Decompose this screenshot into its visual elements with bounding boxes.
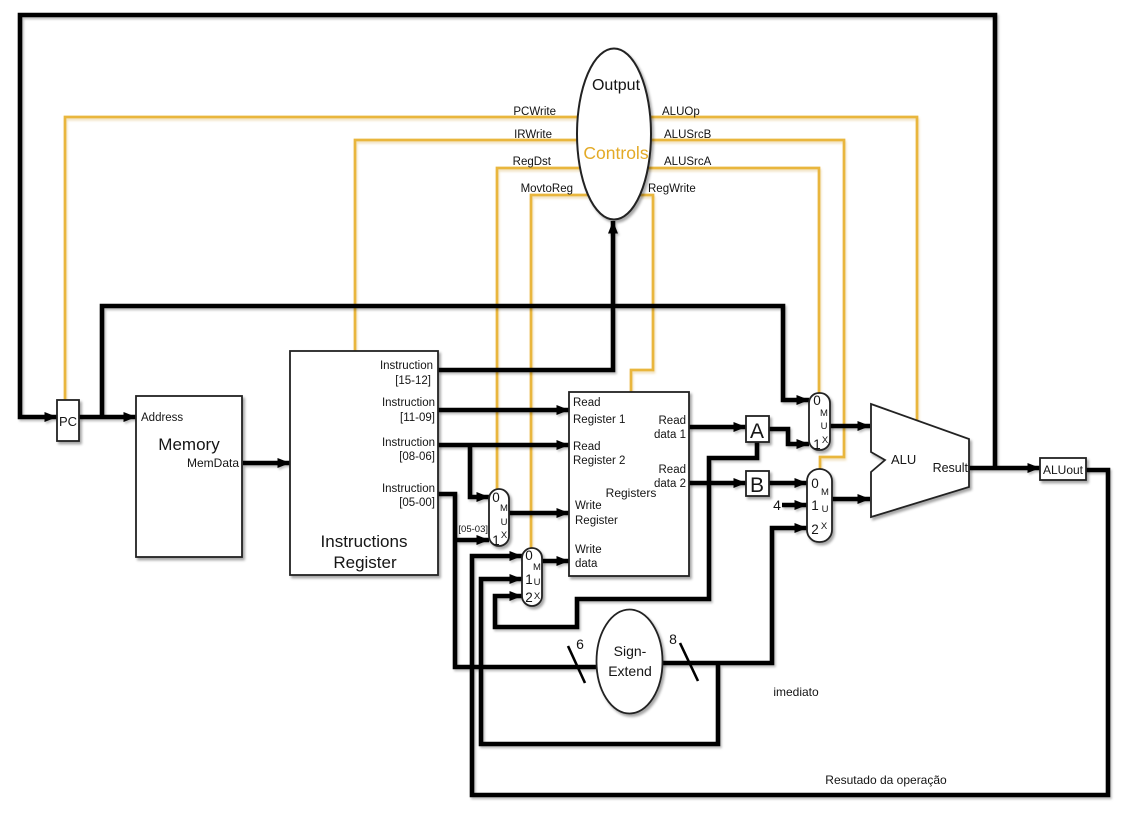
wire A register output to ALU source A mux input 1 (769, 429, 809, 444)
wire Read data 1 to A register (689, 425, 746, 430)
label ALUSrcA (664, 156, 712, 168)
wire PCWrite control (Controls to PC clock) (65, 117, 590, 400)
label PCWrite (513, 106, 556, 118)
svg-text:data: data (575, 558, 598, 570)
svg-text:Instruction: Instruction (382, 397, 435, 409)
svg-text:[05-03]: [05-03] (458, 524, 488, 535)
wire Sign-Extend immediate loop to write-data mux input 1 (481, 579, 718, 744)
svg-text:Instructions: Instructions (321, 532, 408, 551)
register B (746, 471, 769, 497)
svg-text:U: U (821, 421, 828, 432)
svg-text:6: 6 (576, 636, 584, 652)
wire constant 4 to ALU source B mux input 1 (782, 503, 807, 508)
svg-text:ALUout: ALUout (1043, 463, 1084, 477)
label MovtoReg (521, 183, 573, 195)
svg-text:A: A (750, 420, 764, 443)
wire PC feedback loop from ALU Result around border to PC input (20, 15, 995, 468)
svg-text:U: U (822, 504, 829, 515)
wire ALUSrcA control (Controls to ALU source A mux) (640, 168, 819, 393)
svg-text:data 1: data 1 (654, 429, 686, 441)
bus width slash 6 (568, 636, 585, 683)
svg-text:Read: Read (573, 397, 601, 409)
wire Instruction [05-03] branch to write-register mux input 1 (455, 538, 489, 543)
wire Instruction [11-09] to Read Register 1 (438, 408, 569, 413)
svg-text:4: 4 (773, 497, 781, 513)
wire ALU source A mux output to ALU (830, 424, 870, 429)
ALU unit (871, 404, 969, 517)
wire ALU source B mux output to ALU (832, 497, 870, 502)
wire write-data mux output to Write data (542, 559, 569, 564)
svg-text:Write: Write (575, 544, 602, 556)
svg-text:2: 2 (811, 522, 819, 537)
svg-text:M: M (533, 562, 541, 573)
svg-text:Result: Result (933, 461, 969, 475)
svg-text:[11-09]: [11-09] (400, 412, 435, 424)
node constant 4 (773, 497, 781, 513)
wire ALUSrcB control (Controls to ALU source B mux) (640, 140, 844, 469)
svg-text:1: 1 (811, 498, 819, 513)
wire ALU Result to ALUout (969, 466, 1040, 471)
svg-text:Read: Read (573, 441, 601, 453)
svg-text:8: 8 (669, 631, 677, 647)
node [05-03] label (458, 524, 488, 535)
wire IRWrite control (Controls to Instructions Register) (355, 140, 590, 351)
svg-text:Output: Output (592, 77, 641, 94)
net label imediato (773, 685, 819, 699)
svg-text:[15-12]: [15-12] (395, 375, 431, 387)
svg-text:B: B (750, 474, 764, 497)
svg-text:M: M (821, 487, 829, 498)
mux write-register (RegDst mux) (489, 489, 509, 548)
svg-text:Write: Write (575, 500, 602, 512)
wire Sign-Extend output to ALU source B mux input 2 (662, 528, 807, 663)
wire ALUout result loop to write-data mux input 0 (472, 470, 1108, 795)
svg-text:2: 2 (525, 590, 533, 605)
svg-text:RegWrite: RegWrite (648, 183, 696, 195)
svg-text:0: 0 (492, 490, 500, 505)
wire MemData output to Instructions Register (243, 461, 290, 466)
wire write-register mux output to Write Register (509, 511, 569, 516)
net label Resutado da operacao (825, 773, 947, 787)
svg-text:MemData: MemData (187, 456, 239, 470)
svg-text:Register: Register (333, 553, 397, 572)
svg-text:Register 2: Register 2 (573, 455, 625, 467)
instructions register (290, 351, 438, 575)
wire A register loop to write-data mux input 2 (495, 442, 757, 627)
wire Instruction [08-06] branch to write-register mux input 0 (470, 445, 489, 497)
svg-text:ALUOp: ALUOp (662, 106, 700, 118)
svg-text:Register 1: Register 1 (573, 414, 625, 426)
svg-text:M: M (820, 408, 828, 419)
register PC (57, 400, 79, 441)
svg-text:1: 1 (525, 572, 533, 587)
register A (746, 416, 769, 443)
svg-text:X: X (534, 591, 541, 602)
svg-text:Sign-: Sign- (614, 643, 647, 659)
svg-text:Instruction: Instruction (380, 360, 433, 372)
svg-text:X: X (821, 521, 828, 532)
label RegWrite (648, 183, 696, 195)
svg-text:0: 0 (813, 393, 821, 408)
svg-text:Extend: Extend (608, 663, 652, 679)
label ALUOp (662, 106, 700, 118)
svg-text:U: U (501, 517, 508, 528)
svg-text:1: 1 (813, 437, 821, 452)
svg-text:X: X (822, 435, 829, 446)
svg-text:0: 0 (525, 548, 533, 563)
wire B register output to ALU source B mux input 0 (769, 481, 807, 486)
wire PC value to ALU source A mux input 0 (102, 306, 809, 417)
svg-text:Read: Read (659, 464, 687, 476)
svg-text:Register: Register (575, 515, 618, 527)
controls unit oval (577, 49, 651, 220)
wire MovtoReg control (Controls to write-data mux) (531, 195, 588, 548)
svg-text:ALUSrcA: ALUSrcA (664, 156, 712, 168)
svg-text:Instruction: Instruction (382, 483, 435, 495)
sign-extend unit oval (597, 610, 663, 714)
svg-text:[05-00]: [05-00] (399, 497, 435, 509)
wire Instruction [08-06] to Read Register 2 (438, 443, 569, 448)
svg-text:0: 0 (811, 476, 819, 491)
label RegDst (513, 156, 552, 168)
svg-text:IRWrite: IRWrite (514, 129, 552, 141)
svg-text:ALU: ALU (891, 452, 916, 467)
svg-text:MovtoReg: MovtoReg (521, 183, 573, 195)
svg-text:1: 1 (492, 533, 500, 548)
svg-text:U: U (534, 577, 541, 588)
svg-text:Controls: Controls (583, 143, 648, 163)
svg-text:M: M (500, 503, 508, 514)
wire Read data 2 to B register (689, 481, 746, 486)
wire RegWrite control (Controls to Registers) (631, 195, 653, 392)
svg-text:data 2: data 2 (654, 478, 686, 490)
label IRWrite (514, 129, 552, 141)
mux write-data (MovtoReg mux) (522, 548, 542, 606)
svg-text:Instruction: Instruction (382, 437, 435, 449)
register ALUout (1040, 458, 1086, 480)
svg-text:Registers: Registers (606, 486, 657, 500)
svg-text:X: X (501, 530, 508, 541)
svg-text:RegDst: RegDst (513, 156, 552, 168)
wire PC output to Memory Address (79, 415, 136, 420)
bus width slash 8 (669, 631, 698, 681)
svg-text:[08-06]: [08-06] (399, 451, 435, 463)
svg-text:Resutado da operação: Resutado da operação (825, 773, 947, 787)
wire Instruction [15-12] to Controls (438, 221, 613, 370)
mux ALU source B (ALUSrcB mux) (807, 469, 832, 542)
svg-text:Memory: Memory (158, 435, 220, 454)
svg-text:Address: Address (141, 412, 183, 424)
wire RegDst control (Controls to write-register mux) (497, 168, 590, 489)
memory unit (136, 396, 242, 557)
svg-text:PC: PC (59, 414, 77, 429)
svg-text:Read: Read (659, 415, 687, 427)
svg-text:imediato: imediato (773, 685, 819, 699)
wire ALUOp control (Controls to ALU) (640, 117, 917, 421)
registers file (569, 392, 689, 576)
label ALUSrcB (664, 129, 712, 141)
svg-text:PCWrite: PCWrite (513, 106, 556, 118)
svg-text:ALUSrcB: ALUSrcB (664, 129, 712, 141)
mux ALU source A (ALUSrcA mux) (809, 393, 830, 452)
wire Instruction [05-00] to Sign-Extend (438, 494, 597, 667)
